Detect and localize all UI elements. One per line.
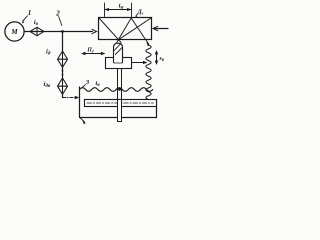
dome hatch lines [114,44,122,55]
table frame right wall [156,100,158,118]
horizontal reciprocation arrow P_g [83,53,104,55]
table slab [85,100,157,107]
dimension extension lines [105,3,132,17]
svg-text:3: 3 [85,79,90,86]
arrowhead on dashed link [75,96,79,100]
label 1 leader [23,16,28,21]
box diagonal apex to TR [119,18,151,40]
label 2 leader [59,17,62,26]
svg-text:iв: iв [34,19,39,27]
gear set i_v (diamond on shaft) [30,27,44,36]
arrow from peak through BR corner [131,18,148,44]
svg-text:Пг: Пг [86,47,94,54]
workpiece cylinder with dome [114,43,123,62]
open arrowhead into box [92,29,97,33]
socket bottom [114,62,122,64]
svg-text:Дг: Дг [137,10,144,16]
gear set i_dv (lower tall diamond) [58,78,68,94]
vertical feed squiggle [146,45,151,100]
table frame base [80,117,157,119]
box diagonal apex to peak [117,18,131,42]
label D leader [136,14,137,16]
junction dot [61,30,64,33]
wire between diamonds [62,67,64,78]
svg-text:2: 2 [55,10,60,18]
motor M [5,22,24,41]
direction arrow below base [81,118,85,122]
svg-text:М: М [10,29,18,36]
box diagonal TL to apex [99,18,121,42]
wire: main horizontal shaft [24,31,92,33]
screw pedestal through table [118,100,122,122]
wire: vertical chain upper [62,32,64,52]
dimension arrowheads [105,8,132,11]
shaft-wavy junction blob [118,88,121,91]
dashed link to table frame [63,97,76,99]
wire below lower diamond [62,94,64,97]
svg-text:iдв: iдв [44,81,51,89]
screw shaft below holder [118,69,122,100]
gear set i_d (upper tall diamond) [58,51,68,67]
svg-text:1: 1 [28,9,32,17]
vertical feed arrow s_v [156,52,158,63]
tool holder block [106,58,132,69]
wavy feed line horizontal [80,88,153,92]
svg-text:sв: sв [159,56,165,63]
table centerline dash-dot [87,102,154,104]
svg-text:tв: tв [96,80,101,88]
arrow entering box from right [154,28,168,30]
svg-text:tи: tи [119,2,124,10]
table frame left wall [79,87,81,118]
box (ram) [99,18,152,40]
link holder to feed squiggle [132,62,145,64]
svg-text:iд: iд [46,49,51,57]
dimension line t_i [105,9,132,11]
label 3 leader [82,85,86,88]
